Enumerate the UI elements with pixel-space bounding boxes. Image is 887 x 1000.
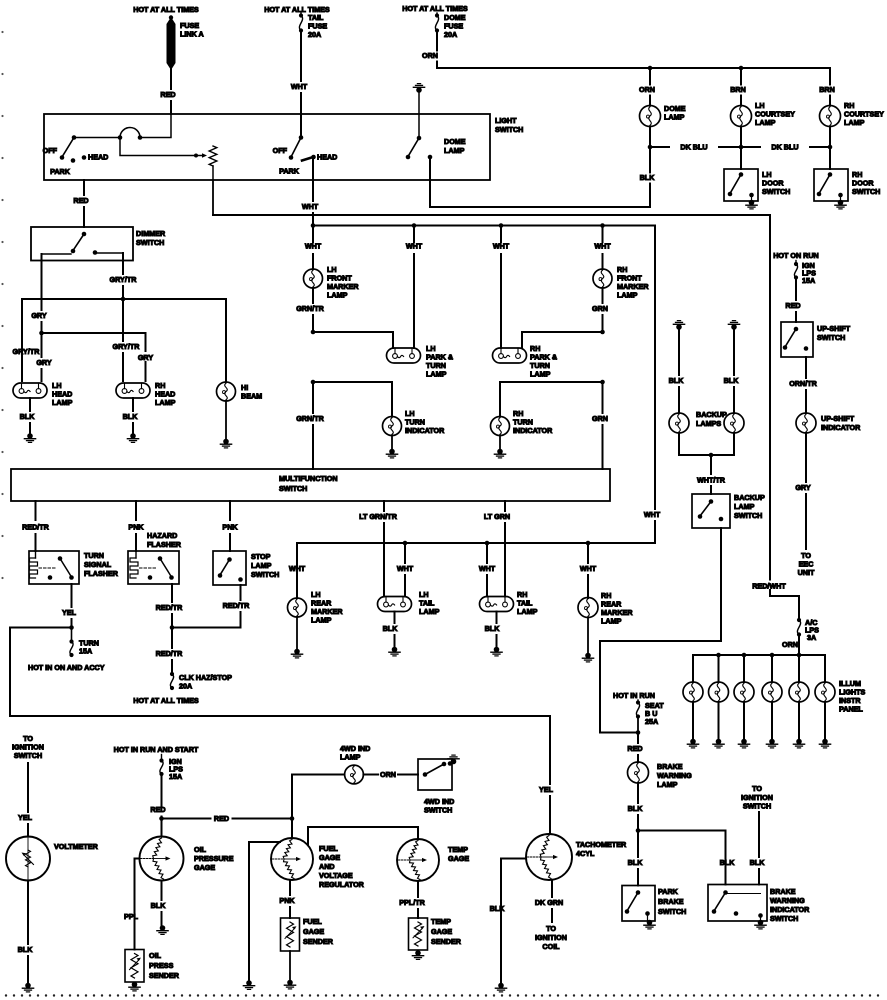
wire GRY up-shift indicator to EEC [805,433,807,482]
wire ground illumination lamp 1 [692,702,694,740]
svg-text:DK BLU: DK BLU [680,143,707,152]
svg-text:WARNING: WARNING [657,771,692,780]
wire PPL oil gauge to sender [135,859,140,950]
svg-text:PNK: PNK [128,523,144,532]
switch BRAKE WARNING INDICATOR SWITCH [708,885,767,922]
junction RH tail WHT drop [485,541,490,546]
wire seat fuse to junction [637,717,639,733]
wire WHT drop to LH park and turn lamp [413,226,415,243]
svg-text:PARK: PARK [50,167,71,176]
junction illum feed [797,653,802,658]
lamp LH PARK & TURN LAMP [387,348,421,363]
junction RH rear marker drop [586,541,591,546]
ground at illumination lamp 5 [796,739,802,745]
svg-text:OIL: OIL [194,845,207,854]
svg-text:LAMP: LAMP [251,561,272,570]
wire RED light switch to dimmer switch [83,180,85,195]
svg-text:LINK A: LINK A [180,30,204,39]
svg-text:TEMP: TEMP [431,917,451,926]
svg-text:SWITCH: SWITCH [14,751,42,760]
switch DIMMER SWITCH [31,227,133,261]
svg-text:RED/TR: RED/TR [22,523,50,532]
svg-text:PNK: PNK [222,523,238,532]
svg-text:4CYL: 4CYL [576,849,595,858]
svg-text:BLK: BLK [383,624,399,633]
junction brake warning feed [636,730,641,735]
ground at tachometer [498,983,504,989]
svg-text:BLK: BLK [490,904,506,913]
svg-text:LAMP: LAMP [734,502,755,511]
svg-text:WHT: WHT [289,564,306,573]
svg-text:LAMP: LAMP [617,291,638,300]
junction RH turn indicator branch [600,380,605,385]
svg-text:GRN: GRN [592,304,608,313]
wire drop to illumination lamp 2 [718,655,720,682]
svg-text:SWITCH: SWITCH [817,333,845,342]
switch STOP LAMP SWITCH [213,551,246,585]
junction rail B LH park lamp drop [412,223,417,228]
wire RED to brake warning lamp [637,733,639,744]
svg-text:PPL/TR: PPL/TR [399,898,425,907]
svg-text:WHT: WHT [302,202,319,211]
lamp ILLUM LIGHTS INSTR PANEL 5 [789,682,809,702]
svg-text:LAMP: LAMP [755,118,776,127]
switch LH DOOR SWITCH [724,169,758,201]
wire BLK dome lamp return to light switch [649,147,651,173]
svg-text:LT GRN/TR: LT GRN/TR [359,512,398,521]
wire jog to A/C fuse [770,590,799,620]
svg-text:GRY: GRY [31,311,47,320]
svg-text:YEL: YEL [62,608,77,617]
wire DK BLU linking dome and courtesy lamps [650,146,669,148]
wire GRY/TR drop to RH head lamp high beam [122,299,124,341]
svg-text:WHT: WHT [580,564,597,573]
junction RH park and turn branch [600,330,605,335]
junction LH park and turn branch [311,330,316,335]
gauge VOLTMETER [6,837,50,881]
wire ORN to illumination bus [798,635,800,656]
svg-text:FLASHER: FLASHER [84,569,119,578]
svg-text:SWITCH: SWITCH [495,125,523,134]
ground at LH rear marker lamp [296,617,298,650]
wire GRN below RH front marker [602,288,604,303]
lamp ILLUM LIGHTS INSTR PANEL 2 [709,682,729,702]
junction rail B RH marker drop [600,223,605,228]
lamp ILLUM LIGHTS INSTR PANEL 1 [683,682,703,702]
svg-text:GAGE: GAGE [303,927,324,936]
wire backup lamp switch output loop [600,528,721,733]
junction RH door switch feed [828,145,833,150]
wire LH courtesy lamp to DK BLU junction [740,127,742,148]
light switch internal feed from fuse link [140,114,171,138]
svg-text:INDICATOR: INDICATOR [770,905,810,914]
svg-text:UP-SHIFT: UP-SHIFT [821,414,855,423]
wire illumination rail from rheostat [212,180,214,215]
fusible link FUSE LINK A [169,15,173,19]
wire BRN drop to LH courtesy lamp [740,68,742,85]
svg-text:RED: RED [150,805,165,814]
ground at illumination lamp 1 [690,739,696,745]
svg-text:UNIT: UNIT [798,568,815,577]
svg-text:TEMP: TEMP [448,845,468,854]
junction rail B RH park lamp drop [499,223,504,228]
svg-text:GAGE: GAGE [448,854,469,863]
svg-text:DK BLU: DK BLU [771,143,798,152]
svg-text:BACKUP: BACKUP [734,493,765,502]
wire ground illumination lamp 5 [798,702,800,740]
wire WHT drop to RH tail lamp [486,543,488,563]
sender TEMP GAGE SENDER [409,918,428,950]
svg-text:WHT: WHT [594,242,611,251]
svg-text:SENDER: SENDER [149,971,180,980]
svg-text:HOT IN RUN AND START: HOT IN RUN AND START [114,745,199,754]
switch UP-SHIFT SWITCH [781,322,813,357]
lamp LH FRONT MARKER LAMP [304,269,323,288]
wire WHT park lamp feed from light switch [312,158,314,201]
svg-text:BRAKE: BRAKE [658,897,684,906]
svg-text:BRAKE: BRAKE [657,762,683,771]
light switch park blade contact [302,157,314,161]
scan border dots left [1,31,3,579]
wire RED/TR multifunction to turn signal flasher [35,501,37,520]
lamp 4WD IND LAMP [345,765,364,784]
svg-text:FLASHER: FLASHER [147,540,182,549]
lamp LH COURTSEY LAMP [731,106,752,127]
wire YEL to voltmeter [27,763,29,812]
switch 4WD IND SWITCH [418,759,452,790]
svg-text:LIGHT: LIGHT [495,116,517,125]
svg-text:LAMP: LAMP [52,398,73,407]
svg-text:WHT: WHT [479,564,496,573]
wire GRY drop to LH head lamp low beam [41,333,43,357]
svg-text:GAGE: GAGE [319,853,340,862]
lamp ILLUM LIGHTS INSTR PANEL 4 [762,682,782,702]
wire branch to LH turn indicator [313,382,392,417]
wire LH door switch feed [740,147,742,169]
wire BLK to RH backup lamp [733,329,735,375]
light switch wire hump to headlamp switch pivot [74,137,120,139]
wire voltage regulator output to temp gauge [308,827,418,845]
ground at brake warning indicator switch [760,916,762,922]
svg-text:LAMP: LAMP [340,753,361,762]
svg-text:TURN: TURN [84,551,104,560]
switch PARK BRAKE SWITCH [622,886,655,922]
svg-text:RED: RED [785,301,800,310]
svg-text:HOT AT ALL TIMES: HOT AT ALL TIMES [402,4,468,13]
wire fuel gauge ground side [249,842,280,981]
svg-text:LAMP: LAMP [657,780,678,789]
svg-text:DK GRN: DK GRN [535,898,563,907]
svg-text:3A: 3A [807,633,816,642]
gauge TACHOMETER 4CYL [526,834,572,880]
wire LT GRN multifunction to RH tail lamp [504,501,506,511]
fuse SEAT B U 25A [637,700,639,703]
ground at voltmeter [25,983,31,989]
svg-text:PPL: PPL [124,912,139,921]
wire WHT drop to RH park and turn lamp [500,226,502,243]
switch assembly LIGHT SWITCH box [44,114,490,180]
light switch rheostat feed wire [120,138,203,156]
wire PPL/TR temp gauge to sender [417,881,419,897]
wire ORN drop to dome lamp [649,68,651,85]
svg-text:WHT: WHT [493,242,510,251]
svg-text:RED: RED [73,196,88,205]
svg-text:HOT AT ALL TIMES: HOT AT ALL TIMES [133,5,199,14]
wire BLK RH tail lamp ground [496,612,498,624]
ground at RH tail lamp [494,647,500,653]
svg-text:LAMP: LAMP [426,370,447,379]
ground at fuel sender [287,980,293,986]
svg-text:ORN: ORN [380,770,396,779]
wire ORN dome feed down then right to courtesy lamps [436,31,438,51]
svg-text:LAMP: LAMP [444,146,465,155]
ground at illumination lamp 6 [822,739,828,745]
wire RH courtesy lamp to DK BLU junction [829,127,831,148]
svg-text:BLK: BLK [485,624,501,633]
svg-text:LAMP: LAMP [601,617,622,626]
light switch park/head switch 2 lever [300,114,302,138]
wire to brake warning indicator switch from ignition [758,812,760,857]
svg-text:PARK: PARK [658,887,679,896]
wire GRN/TR LH turn to multifunction switch [312,382,314,413]
svg-text:GAGE: GAGE [194,863,215,872]
svg-text:YEL: YEL [18,813,33,822]
ground at RH head lamp [130,433,136,439]
wire drop to illumination lamp 3 [743,655,745,682]
svg-text:HAZARD: HAZARD [147,531,177,540]
lamp LH HEAD LAMP [13,383,47,398]
ground at illumination lamp 3 [741,739,747,745]
wire ground illumination lamp 4 [771,702,773,740]
ground at LH head lamp [27,433,33,439]
svg-text:SENDER: SENDER [431,937,462,946]
wire drop to illumination lamp 4 [771,655,773,682]
junction dome BLK [648,145,653,150]
wire BRN drop to RH courtesy lamp [829,68,831,85]
svg-text:PANEL: PANEL [839,705,863,714]
svg-text:REGULATOR: REGULATOR [319,880,365,889]
svg-text:HOT ON RUN: HOT ON RUN [773,251,819,260]
spark symbol at 4WD switch [451,759,457,765]
ground at RH rear marker lamp [587,618,589,655]
wire RH door switch feed [829,147,831,169]
svg-text:PRESS: PRESS [149,961,174,970]
wire ORN bus to dome and courtesy lamps [437,67,830,69]
wire branch to brake warning indicator switch [638,831,726,885]
junction dome lamp feed [648,66,653,71]
svg-text:DOME: DOME [444,137,466,146]
wire PNK multifunction to stop lamp switch [229,501,231,520]
svg-text:FUEL: FUEL [303,917,322,926]
svg-text:RED: RED [214,814,229,823]
gauge OIL PRESSURE GAGE [161,819,163,837]
fuse TAIL FUSE 20A [300,12,302,16]
lamp RH PARK & TURN LAMP [493,348,527,363]
svg-text:BRN: BRN [819,85,835,94]
svg-text:LAMP: LAMP [844,118,865,127]
svg-text:WHT/TR: WHT/TR [697,476,726,485]
wire WHT from tail fuse to light switch [300,31,302,82]
wire ground illumination lamp 2 [718,702,720,740]
svg-text:GRN: GRN [592,414,608,423]
svg-text:RED: RED [627,744,642,753]
lamp BRAKE WARNING LAMP [628,762,649,783]
fuse CLK HAZ/STOP 20A [170,672,174,676]
svg-text:20A: 20A [444,30,457,39]
svg-text:VOLTAGE: VOLTAGE [319,871,353,880]
svg-text:LAMP: LAMP [327,291,348,300]
svg-text:GAGE: GAGE [431,927,452,936]
svg-text:HOT IN ON AND ACCY: HOT IN ON AND ACCY [28,663,105,672]
svg-text:LAMP: LAMP [311,616,332,625]
svg-text:BLK: BLK [151,901,167,910]
svg-text:SWITCH: SWITCH [734,511,762,520]
svg-text:LAMP: LAMP [530,370,551,379]
wire LT GRN/TR multifunction to LH tail lamp [383,501,385,511]
svg-text:GRN/TR: GRN/TR [296,304,324,313]
svg-text:LAMPS: LAMPS [696,419,721,428]
svg-text:15A: 15A [169,772,182,781]
svg-text:SWITCH: SWITCH [762,187,790,196]
svg-text:TO: TO [546,924,556,933]
svg-text:SWITCH: SWITCH [136,238,164,247]
fuse A/C LPS 3A [797,618,801,622]
svg-text:COIL: COIL [542,942,560,951]
lamp UP-SHIFT INDICATOR [796,413,816,433]
svg-text:BLK: BLK [20,412,36,421]
lamp RH FRONT MARKER LAMP [593,269,612,288]
fuse IGN LPS 15A (up-shift) [795,261,797,265]
svg-text:25A: 25A [645,717,658,726]
wire panel illumination rail down right side [769,215,771,580]
svg-text:RED/TR: RED/TR [156,603,184,612]
svg-text:HEAD: HEAD [88,153,108,162]
svg-text:ORN/TR: ORN/TR [789,379,817,388]
svg-text:OIL: OIL [149,951,162,960]
sender OIL PRESS SENDER [125,950,144,983]
svg-text:TACHOMETER: TACHOMETER [576,840,627,849]
svg-text:WHT: WHT [406,242,423,251]
wire drop to illumination lamp 5 [798,655,800,682]
wire DK GRN tachometer to ignition coil [551,880,553,897]
svg-text:SWITCH: SWITCH [251,570,279,579]
light switch crossover hump [120,128,140,138]
wire drop to illumination lamp 1 [692,655,694,682]
ground at illumination lamp 4 [769,739,775,745]
svg-text:SENDER: SENDER [303,937,334,946]
svg-text:WHT: WHT [397,564,414,573]
svg-text:BLK: BLK [720,858,736,867]
wire RED from fuse link A to light switch [170,69,172,89]
wire RED ign fuse to gauges [161,774,163,806]
svg-text:15A: 15A [802,276,815,285]
svg-text:LAMP: LAMP [419,607,440,616]
svg-text:SWITCH: SWITCH [279,484,307,493]
wire BLK brake warning lamp down [637,783,639,803]
light switch headlamp switch lever (OFF/PARK/HEAD) [72,135,77,140]
wire BLK voltmeter ground [27,881,29,945]
svg-text:GRY: GRY [138,353,154,362]
wire YEL turn flasher output [71,584,73,607]
wire drop to LH head lamp high beam [21,299,23,381]
lamp ILLUM LIGHTS INSTR PANEL 6 [815,682,835,702]
wire ORN 4wd lamp to switch [363,774,378,776]
ground at RH door switch [840,195,842,201]
wire RED gauge feed rail [162,818,211,820]
svg-text:TO: TO [752,784,762,793]
svg-text:BRAKE: BRAKE [770,887,796,896]
wire drop to illumination lamp 6 [824,655,826,682]
wire GRN/TR below LH front marker [312,288,314,303]
wire YEL drop to tachometer [549,716,551,784]
svg-text:PRESSURE: PRESSURE [194,854,234,863]
wire BLK to LH backup lamp [678,329,680,375]
gauge FUEL GAGE AND VOLTAGE REGULATOR [291,819,293,839]
lamp BACKUP LAMP RH [724,413,744,433]
wire illumination lamp bus [693,654,825,656]
lamp RH REAR MARKER LAMP [578,598,598,618]
svg-text:BRN: BRN [730,85,746,94]
wire branch to RH park and turn lamp [522,332,603,348]
svg-text:VOLTMETER: VOLTMETER [54,842,99,851]
lamp RH HEAD LAMP [116,383,150,398]
ground at LH turn indicator [391,436,393,451]
wire drop to HI BEAM indicator [225,299,227,382]
svg-text:GRY: GRY [36,358,52,367]
lamp ILLUM LIGHTS INSTR PANEL 3 [734,682,754,702]
fuse DOME FUSE 20A [436,13,438,16]
svg-text:BLK: BLK [669,376,685,385]
wire GRY branch to RH head lamp low beam [42,333,146,381]
svg-text:INDICATOR: INDICATOR [821,423,861,432]
svg-text:UP-SHIFT: UP-SHIFT [817,324,851,333]
wire branch to LH park and turn lamp [313,332,393,348]
wire 4WD indicator lamp feed [292,775,345,819]
svg-text:RED: RED [160,90,175,99]
wire label GRY [136,352,155,361]
svg-text:SWITCH: SWITCH [424,806,452,815]
wire WHT drop to LH rear marker lamp [296,543,298,598]
wire ground illumination lamp 6 [824,702,826,740]
lamp BACKUP LAMP LH [669,413,689,433]
wire BLK oil gauge ground [161,881,163,901]
junction park brake / indicator switches [636,828,641,833]
svg-text:BACKUP: BACKUP [696,410,727,419]
lamp LH TURN INDICATOR [383,417,402,436]
switch BACKUP LAMP SWITCH [692,494,730,528]
junction LH turn indicator branch [311,380,316,385]
svg-text:RED/TR: RED/TR [223,601,251,610]
wire WHT/TR to backup lamp switch [710,455,712,474]
wire RED/TR hazard flasher output [171,584,173,602]
svg-text:GRY/TR: GRY/TR [110,275,138,284]
svg-text:BLK: BLK [18,945,34,954]
lamp RH TAIL LAMP [480,597,514,612]
ground at LH door switch [751,195,753,201]
wire PNK fuel gauge to sender [289,880,291,895]
wire dome lamp to DK BLU junction [649,127,651,148]
lamp HI BEAM indicator [217,382,236,401]
svg-text:RED/TR: RED/TR [156,649,184,658]
wire ORN/TR up-shift switch to indicator [805,357,807,378]
spark symbol LH backup feed [676,324,682,330]
svg-text:ORN: ORN [639,85,655,94]
wire RED/TR stop lamp switch output [240,585,242,600]
junction LH tail WHT drop [403,541,408,546]
svg-text:BLK: BLK [123,412,139,421]
lamp DOME LAMP [640,106,661,127]
sender FUEL GAGE SENDER [281,918,300,951]
